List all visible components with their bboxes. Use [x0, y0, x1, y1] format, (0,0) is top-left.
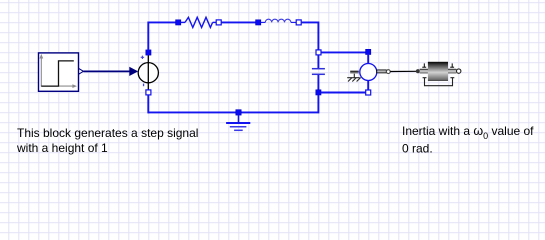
svg-text:Inertia with a ω0 value of: Inertia with a ω0 value of [402, 124, 534, 141]
wire inductor to node top-right corner [302, 22, 319, 50]
wire emf circle down to emf.n [367, 80, 369, 90]
wire signalVoltage.n down to bottom rail [147, 95, 149, 114]
wire top rail to resistor R1 [148, 21, 177, 23]
emf EMF1 circle [360, 64, 377, 81]
pin emf.p (filled) [366, 49, 371, 54]
pin inductor.p (filled) [256, 20, 261, 25]
pin signalVoltage.p (top, filled) [146, 50, 151, 55]
annotation text left [16, 126, 198, 155]
step1 output port y [79, 68, 84, 74]
inductor L1 coil [261, 19, 297, 22]
emf right shaft stub [377, 70, 387, 73]
capacitor C1 [312, 55, 325, 90]
pin resistor.p (filled) [176, 20, 181, 25]
wire node n2 down to bottom rail [317, 95, 319, 113]
inertia J1 [416, 62, 461, 81]
svg-text:This block generates a step si: This block generates a step signal [17, 126, 198, 140]
svg-text:0 rad.: 0 rad. [402, 141, 433, 155]
wire bottom rail [148, 111, 317, 113]
signal voltage source signalVoltage [138, 55, 158, 90]
ground G1 [226, 110, 250, 131]
wire emf.p down to emf circle [367, 54, 369, 64]
emf flange connector (hollow circle) [386, 70, 390, 74]
wire signalVoltage.p up to top rail [147, 22, 149, 51]
pin inductor.n (hollow) [296, 20, 301, 25]
pin capacitor.p (hollow, node n1) [316, 50, 321, 55]
shaft connection line emf.flange to inertia.flange_a [390, 70, 416, 72]
plus label [141, 56, 144, 59]
resistor R1 zigzag [181, 17, 217, 27]
inertia bottom bracket [423, 78, 455, 86]
wire resistor to inductor [221, 21, 256, 23]
annotation text right [402, 124, 534, 155]
pin signalVoltage.n (bottom, hollow) [146, 90, 151, 95]
wire node n2 to emf.n [321, 92, 366, 94]
pin resistor.n (hollow) [216, 20, 221, 25]
step source block step1 [39, 53, 79, 91]
inertia bearing marks [422, 63, 454, 67]
emf support shaft bar [350, 71, 359, 74]
emf support fixed symbol [347, 74, 361, 82]
signal wire step1.y to signalVoltage.v [83, 67, 138, 76]
wire node n1 to emf.p [321, 51, 366, 53]
minus label [143, 84, 144, 87]
pin emf.n (hollow) [366, 90, 371, 95]
svg-text:with a height of 1: with a height of 1 [16, 141, 108, 155]
pin capacitor.n (filled, node n2) [316, 90, 321, 95]
